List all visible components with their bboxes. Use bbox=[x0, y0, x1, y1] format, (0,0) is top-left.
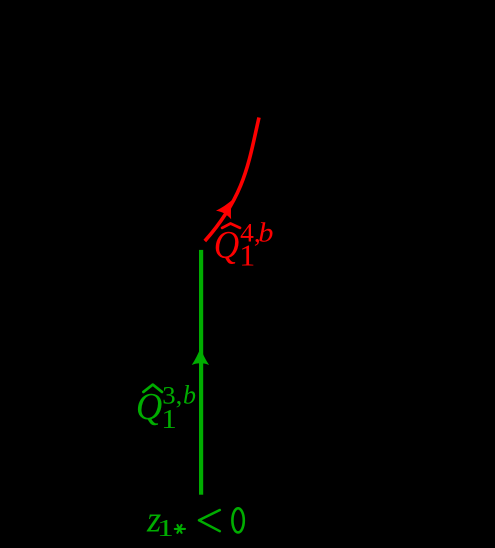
red label hat bbox=[222, 224, 240, 228]
svg-text:Q: Q bbox=[214, 223, 240, 266]
svg-text:Q: Q bbox=[136, 386, 162, 428]
bottom label zero bbox=[232, 508, 243, 532]
red arrowhead on curve bbox=[216, 196, 240, 219]
svg-text:1: 1 bbox=[239, 238, 255, 273]
red trajectory curve bbox=[205, 118, 259, 242]
bottom label subscript asterisk bbox=[175, 525, 185, 533]
svg-text:1: 1 bbox=[157, 515, 174, 542]
svg-text:b: b bbox=[183, 380, 196, 409]
svg-text:b: b bbox=[258, 217, 273, 248]
svg-text:1: 1 bbox=[161, 403, 177, 434]
green arrowhead on line bbox=[192, 348, 209, 365]
bottom label less-than sign bbox=[199, 510, 220, 531]
green vertical line bbox=[199, 250, 203, 495]
green label hat bbox=[143, 385, 162, 392]
